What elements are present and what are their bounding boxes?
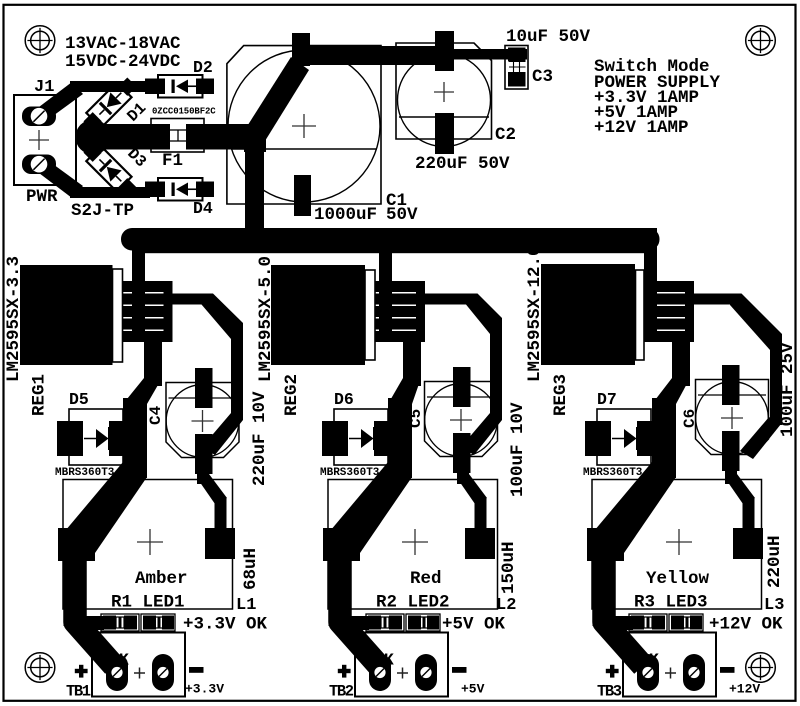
REG3 pin tie bar bbox=[685, 281, 694, 342]
pad TB1-2 bbox=[152, 654, 174, 691]
capacitor C1 center mark bbox=[292, 114, 316, 138]
svg-text:L1: L1 bbox=[236, 596, 256, 615]
wire down to D6 cathode bbox=[388, 398, 412, 478]
wire L3 to TB3 vertical bbox=[593, 556, 616, 626]
inductor L3 center mark bbox=[666, 529, 692, 555]
svg-text:R1 LED1: R1 LED1 bbox=[111, 593, 185, 613]
mounting hole bottom-left bbox=[25, 653, 55, 683]
REG1 pin 2 trace (output) bbox=[123, 294, 202, 305]
wire REG3 output hook diagonal bbox=[730, 294, 782, 351]
pad C5 negative bbox=[453, 433, 471, 473]
REG2 pin 1 trace bbox=[375, 281, 425, 292]
wire F1 to C1 elbow bbox=[206, 124, 251, 150]
wire REG1 output hook diagonal bbox=[202, 294, 244, 340]
wire to TB1 pad diagonal bbox=[75, 556, 114, 666]
pad TB3-1 bbox=[637, 654, 659, 691]
svg-text:LM2595SX-12.0: LM2595SX-12.0 bbox=[525, 245, 545, 382]
svg-text:R3 LED3: R3 LED3 bbox=[634, 593, 708, 613]
label TB1 plus bbox=[75, 665, 88, 678]
label TB2 plus bbox=[338, 665, 351, 678]
svg-text:+5V: +5V bbox=[461, 682, 485, 697]
wire blob to F1 bbox=[105, 124, 150, 150]
wire stub to R3 bbox=[609, 616, 633, 630]
wire elbow junction bbox=[244, 124, 266, 152]
wire elbow down to bus bbox=[245, 140, 264, 230]
svg-text:C4: C4 bbox=[147, 405, 165, 425]
svg-text:R2 LED2: R2 LED2 bbox=[376, 593, 450, 613]
svg-text:MBRS360T3: MBRS360T3 bbox=[320, 467, 380, 479]
svg-text:150uH: 150uH bbox=[499, 541, 519, 594]
capacitor C6 center mark bbox=[721, 407, 743, 429]
svg-text:1000uF: 1000uF bbox=[314, 205, 377, 225]
resistor R2 bbox=[366, 614, 404, 631]
REG3 pin 1 trace bbox=[644, 281, 694, 292]
svg-text:TB2: TB2 bbox=[329, 683, 354, 701]
REG3 pin 4 trace bbox=[644, 319, 694, 330]
wire stub to R2 bbox=[345, 616, 369, 630]
pad C3 top bbox=[508, 48, 526, 62]
wire C6 to L3 jog bbox=[725, 468, 755, 530]
svg-text:LM2595SX-3.3: LM2595SX-3.3 bbox=[4, 256, 24, 382]
pad J1-1 bbox=[22, 107, 56, 127]
pad C1 positive bbox=[292, 33, 310, 66]
svg-text:+12V OK: +12V OK bbox=[709, 615, 783, 635]
pad TB3-2 bbox=[683, 654, 705, 691]
capacitor C4 stripe bbox=[169, 397, 237, 399]
wire elbow up to top bar bbox=[246, 57, 309, 141]
wire stub to R1 bbox=[80, 616, 104, 630]
inductor L2 outline bbox=[328, 480, 498, 610]
pad L2 right bbox=[465, 528, 495, 559]
REG3 pin 5 trace bbox=[644, 331, 694, 342]
capacitor C5 outline bbox=[425, 382, 498, 457]
pad C6 negative bbox=[722, 431, 740, 471]
mounting hole top-right bbox=[746, 26, 776, 56]
label TB3 plus bbox=[606, 665, 619, 678]
REG2 pin 5 trace bbox=[375, 331, 425, 342]
REG3 pin 2 trace (output) bbox=[644, 294, 730, 305]
svg-text:Red: Red bbox=[410, 569, 442, 589]
pad L3 right bbox=[733, 528, 763, 559]
inductor L2 center mark bbox=[402, 529, 428, 555]
svg-text:C6: C6 bbox=[681, 409, 699, 428]
pad TB2-1 bbox=[369, 654, 391, 691]
inductor L1 outline bbox=[63, 480, 233, 610]
svg-text:220uF 10V: 220uF 10V bbox=[250, 391, 270, 486]
regulator REG2 pin-side outline bbox=[365, 270, 375, 360]
capacitor C1 stripe bbox=[231, 148, 377, 150]
svg-text:13VAC-18VAC: 13VAC-18VAC bbox=[65, 34, 181, 54]
wire REG2 hook into cap bbox=[461, 413, 502, 455]
wire D7 to L3 pad diagonal bbox=[589, 462, 676, 553]
svg-text:F1: F1 bbox=[162, 151, 183, 171]
svg-text:Yellow: Yellow bbox=[646, 569, 710, 589]
capacitor C5 stripe bbox=[427, 396, 495, 398]
svg-text:D5: D5 bbox=[69, 390, 89, 409]
terminal block TB2 outline bbox=[355, 633, 448, 697]
terminal block TB1 outline bbox=[92, 633, 185, 697]
capacitor C5 body circle bbox=[425, 384, 498, 457]
wire down to D7 cathode bbox=[652, 398, 676, 478]
diode D3 pads bbox=[83, 143, 136, 196]
svg-text:S2J-TP: S2J-TP bbox=[71, 201, 134, 221]
label TB3 minus bbox=[720, 667, 735, 673]
wire C5 to L2 jog bbox=[457, 468, 487, 530]
capacitor C2 stripe bbox=[399, 116, 489, 118]
svg-text:PWR: PWR bbox=[26, 187, 58, 207]
svg-text:L2: L2 bbox=[496, 596, 516, 615]
svg-text:D6: D6 bbox=[334, 390, 354, 409]
svg-text:+5V OK: +5V OK bbox=[442, 615, 506, 635]
pad TB2-2 bbox=[415, 654, 437, 691]
TB3 center mark bbox=[665, 668, 676, 679]
wire bus drop to REG1 bbox=[132, 228, 145, 336]
wire top power bar bbox=[296, 46, 527, 65]
wire J1-2 to D4 bbox=[35, 159, 150, 198]
svg-text:1K: 1K bbox=[374, 651, 394, 670]
pad L1 left bbox=[58, 528, 95, 561]
wire REG1 hook into cap bbox=[202, 413, 243, 455]
regulator REG3 pin-side outline bbox=[636, 270, 645, 360]
svg-text:REG3: REG3 bbox=[551, 374, 571, 416]
capacitor C3 body lines bbox=[509, 62, 526, 73]
wire REG3 pin row down bbox=[672, 338, 690, 386]
diode D7 bbox=[585, 409, 663, 465]
wire down to D5 cathode bbox=[123, 398, 147, 478]
pad TB1-1 bbox=[106, 654, 128, 691]
wire REG2 pin row down bbox=[403, 338, 421, 386]
wire REG1 pin row down bbox=[144, 338, 162, 386]
regulator REG3 body (LM2595SX) bbox=[541, 264, 635, 365]
svg-text:1K: 1K bbox=[109, 651, 129, 670]
pad C5 positive bbox=[453, 367, 471, 407]
LED LED2 bbox=[406, 614, 440, 631]
capacitor C1 body circle bbox=[228, 50, 380, 202]
wire REG1 output hook vertical bbox=[231, 324, 243, 420]
svg-text:0ZCC0150BF2C: 0ZCC0150BF2C bbox=[152, 107, 216, 117]
mounting hole top-left bbox=[25, 26, 55, 56]
wire REG3 hook into cap bbox=[740, 417, 781, 459]
wire L2 to TB2 vertical bbox=[329, 556, 352, 626]
LED LED3 bbox=[669, 614, 703, 631]
diode D2 bbox=[145, 75, 214, 98]
LED LED1 bbox=[141, 614, 175, 631]
svg-text:TB3: TB3 bbox=[597, 683, 622, 701]
wire junction blob D1/D3 anode bbox=[76, 120, 151, 155]
svg-text:REG2: REG2 bbox=[282, 374, 302, 416]
resistor R3 bbox=[629, 614, 667, 631]
wire bus drop to REG2 bbox=[379, 228, 392, 336]
svg-text:100uF 25V: 100uF 25V bbox=[778, 342, 798, 437]
TB1 center mark bbox=[134, 668, 145, 679]
svg-text:MBRS360T3: MBRS360T3 bbox=[55, 467, 115, 479]
wire REG1 down jog bbox=[123, 378, 162, 404]
label TB2 minus bbox=[452, 667, 467, 673]
pad L3 left bbox=[587, 528, 624, 561]
mounting hole bottom-right bbox=[746, 653, 776, 683]
svg-text:100uF 10V: 100uF 10V bbox=[508, 402, 528, 497]
regulator REG1 body (LM2595SX) bbox=[20, 265, 113, 365]
svg-text:50V: 50V bbox=[386, 205, 418, 225]
svg-text:LM2595SX-5.0: LM2595SX-5.0 bbox=[256, 256, 276, 382]
svg-text:+3.3V OK: +3.3V OK bbox=[183, 615, 268, 635]
capacitor C2 body circle bbox=[398, 54, 491, 147]
svg-text:J1: J1 bbox=[34, 78, 54, 97]
wire D6 to L2 pad diagonal bbox=[325, 462, 412, 553]
diode D6 bbox=[322, 409, 400, 465]
REG1 pin 1 trace bbox=[123, 281, 173, 292]
terminal block TB3 outline bbox=[623, 633, 716, 697]
capacitor C4 outline bbox=[166, 383, 239, 458]
regulator REG2 body (LM2595SX) bbox=[271, 265, 365, 365]
svg-text:+12V 1AMP: +12V 1AMP bbox=[594, 118, 689, 138]
wire D5 to L1 pad diagonal bbox=[60, 462, 147, 553]
TB2 center mark bbox=[397, 668, 408, 679]
capacitor C4 body circle bbox=[166, 385, 239, 458]
wire REG2 output hook diagonal bbox=[466, 294, 502, 335]
svg-text:C2: C2 bbox=[495, 125, 516, 145]
svg-text:D2: D2 bbox=[193, 58, 213, 77]
REG2 pin tie bar bbox=[416, 281, 425, 342]
svg-text:MBRS360T3: MBRS360T3 bbox=[583, 467, 643, 479]
svg-text:TB1: TB1 bbox=[66, 683, 91, 701]
pad C1 negative bbox=[294, 175, 311, 216]
capacitor C5 center mark bbox=[450, 409, 472, 431]
capacitor C2 center mark bbox=[434, 82, 454, 102]
svg-text:+3.3V: +3.3V bbox=[185, 682, 224, 697]
regulator REG1 pin-side outline bbox=[113, 269, 123, 362]
wire REG2 down jog bbox=[388, 378, 421, 404]
title text block bbox=[594, 57, 721, 138]
wire REG2 output hook vertical bbox=[490, 329, 502, 420]
pad J1-2 bbox=[22, 155, 56, 175]
wire bus drop to REG3 bbox=[644, 228, 657, 336]
diode D3 body bbox=[86, 146, 131, 191]
wire to TB2 pad diagonal bbox=[340, 556, 379, 666]
wire C4 to L1 jog bbox=[197, 468, 227, 530]
svg-text:68uH: 68uH bbox=[241, 548, 261, 590]
pad C6 positive bbox=[722, 365, 740, 405]
svg-text:D4: D4 bbox=[193, 199, 213, 218]
pad L2 left bbox=[323, 528, 360, 561]
svg-text:L3: L3 bbox=[764, 596, 784, 615]
diode D1 body bbox=[86, 82, 131, 127]
REG2 pin 3 trace bbox=[375, 306, 425, 317]
pad C2 positive bbox=[435, 31, 454, 71]
capacitor C6 body circle bbox=[696, 382, 769, 455]
svg-text:220uH: 220uH bbox=[765, 535, 785, 588]
wire REG3 down jog bbox=[652, 378, 690, 404]
REG1 pin 5 trace bbox=[123, 331, 173, 342]
inductor L3 outline bbox=[592, 480, 762, 610]
svg-text:Amber: Amber bbox=[135, 569, 188, 589]
REG3 pin 3 trace bbox=[644, 306, 694, 317]
capacitor C6 stripe bbox=[698, 394, 766, 396]
diode D1 pads bbox=[83, 77, 136, 130]
svg-text:C3: C3 bbox=[532, 67, 553, 87]
REG1 pin tie bar bbox=[164, 281, 173, 342]
pad C3 bottom bbox=[508, 72, 526, 87]
label TB1 minus bbox=[189, 667, 204, 673]
wire to TB3 pad diagonal bbox=[604, 556, 643, 666]
REG1 pin 4 trace bbox=[123, 319, 173, 330]
inductor L1 center mark bbox=[137, 529, 163, 555]
svg-text:10uF 50V: 10uF 50V bbox=[506, 27, 591, 47]
REG2 pin 2 trace (output) bbox=[375, 294, 466, 305]
capacitor C2 outline bbox=[396, 43, 492, 139]
svg-text:D7: D7 bbox=[597, 390, 617, 409]
J1 center mark bbox=[29, 130, 49, 150]
wire L1 to TB1 vertical bbox=[64, 556, 87, 626]
wire REG3 output hook vertical bbox=[770, 344, 782, 425]
diode D4 bbox=[145, 178, 214, 201]
fuse F1 bbox=[148, 119, 208, 153]
svg-text:REG1: REG1 bbox=[30, 374, 50, 416]
capacitor C1 outline bbox=[227, 46, 381, 204]
connector J1 outline bbox=[14, 95, 76, 185]
wire bus lower thin trace bbox=[138, 250, 652, 253]
REG1 pin 3 trace bbox=[123, 306, 173, 317]
wire main power bus bbox=[121, 228, 660, 251]
svg-text:15VDC-24VDC: 15VDC-24VDC bbox=[65, 52, 181, 72]
resistor R1 bbox=[101, 614, 139, 631]
svg-text:1K: 1K bbox=[639, 651, 659, 670]
capacitor C6 outline bbox=[696, 380, 769, 455]
capacitor C4 center mark bbox=[192, 410, 214, 432]
REG2 pin 4 trace bbox=[375, 319, 425, 330]
pad C2 negative bbox=[435, 113, 454, 154]
svg-text:+12V: +12V bbox=[729, 682, 760, 697]
diode D5 bbox=[57, 409, 135, 465]
pad C4 positive bbox=[195, 368, 213, 408]
pad C4 negative bbox=[195, 434, 213, 474]
wire J1-1 to D2 bbox=[35, 81, 150, 121]
capacitor C3 outline bbox=[505, 46, 528, 90]
svg-text:220uF 50V: 220uF 50V bbox=[415, 154, 510, 174]
pad L1 right bbox=[205, 528, 235, 559]
